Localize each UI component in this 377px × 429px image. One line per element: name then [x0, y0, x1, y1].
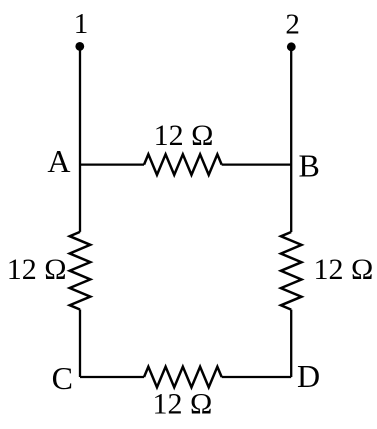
wire: terminal 1 to node A to resistor top [79, 46, 81, 232]
svg-text:2: 2 [285, 9, 300, 41]
terminal 2 dot [287, 42, 296, 51]
wire: resistor R3 bottom lead to node D [290, 310, 292, 377]
svg-text:D: D [297, 358, 320, 394]
terminal 1 dot [75, 42, 84, 51]
svg-text:12 Ω: 12 Ω [153, 388, 213, 421]
resistor R3 (B-D) 12 ohm zigzag [281, 232, 302, 310]
svg-text:B: B [299, 148, 320, 184]
wire: resistor R2 bottom lead to node C [79, 310, 81, 378]
wire: terminal 2 to node B to resistor top [290, 47, 292, 232]
resistor R1 (A-B) 12 ohm zigzag [144, 154, 222, 175]
svg-text:12 Ω: 12 Ω [7, 253, 67, 286]
wire: A to resistor R1 left lead [80, 163, 144, 165]
wire: C to resistor R4 left lead [80, 376, 144, 378]
svg-text:A: A [47, 143, 70, 179]
svg-text:12 Ω: 12 Ω [154, 119, 214, 152]
resistor R2 (A-C) 12 ohm zigzag [70, 232, 91, 310]
wire: resistor R4 right lead to D [222, 376, 292, 378]
wire: resistor R1 right lead to B [222, 163, 292, 165]
svg-text:12 Ω: 12 Ω [314, 253, 374, 286]
resistor R4 (C-D) 12 ohm zigzag [144, 367, 222, 388]
svg-text:1: 1 [74, 8, 89, 40]
svg-text:C: C [52, 360, 73, 396]
